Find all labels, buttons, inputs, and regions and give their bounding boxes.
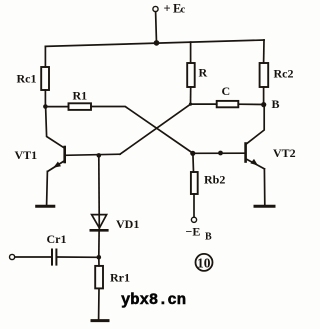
svg-text:R: R [199, 66, 208, 80]
svg-text:Cr1: Cr1 [47, 232, 67, 246]
svg-text:B: B [205, 232, 212, 243]
svg-text:Rr1: Rr1 [110, 271, 130, 285]
svg-text:C: C [222, 84, 231, 98]
svg-text:10: 10 [197, 255, 211, 270]
svg-text:c: c [181, 5, 186, 16]
svg-text:ybx8.cn: ybx8.cn [121, 291, 186, 309]
svg-text:VD1: VD1 [116, 217, 139, 231]
svg-text:B: B [272, 97, 280, 111]
svg-text:Rc1: Rc1 [17, 72, 37, 86]
svg-text:Rc2: Rc2 [274, 67, 294, 81]
svg-text:VT2: VT2 [273, 146, 296, 160]
svg-text:VT1: VT1 [15, 148, 38, 162]
svg-text:Rb2: Rb2 [204, 173, 225, 187]
svg-text:−E: −E [186, 225, 201, 239]
svg-text:R1: R1 [73, 89, 88, 103]
svg-text:+: + [164, 2, 171, 16]
